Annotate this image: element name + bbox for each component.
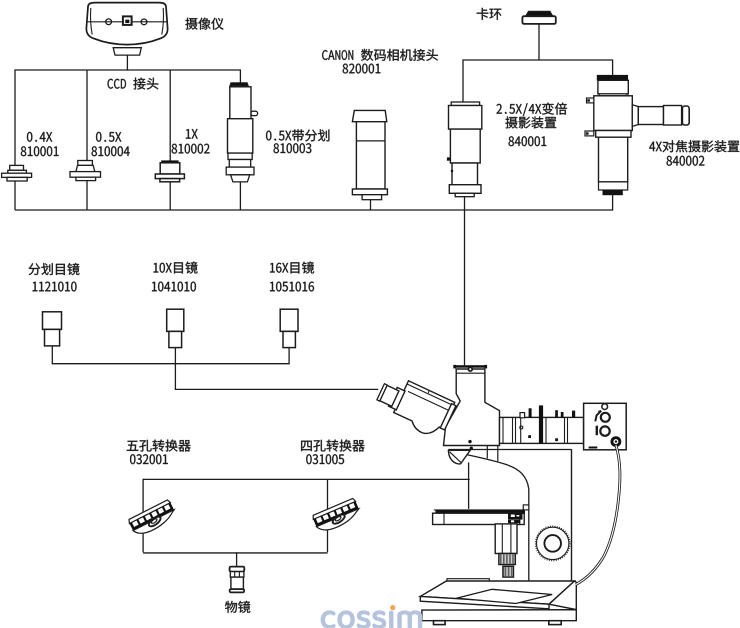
label 0.4X [27, 132, 52, 142]
microscope vertical illuminator [500, 417, 584, 443]
adapter 0.5X-with-reticle 810003 [230, 83, 248, 86]
wire 1X top [169, 70, 171, 162]
wire eyepiece1 drop [51, 346, 53, 364]
wire turret box bottom [143, 552, 327, 554]
objective lens [230, 567, 245, 572]
microscope stage [434, 509, 523, 511]
photo device 2.5X/4X zoom 840001 [451, 102, 479, 106]
wire eyepiece2 to head [175, 348, 378, 390]
wire ring drop [538, 24, 540, 60]
camera mount [113, 48, 141, 55]
label 1X [186, 129, 198, 139]
label 820001 [343, 64, 381, 74]
label 16X eyepiece [270, 262, 314, 274]
adapter CANON digital camera 820001 [352, 110, 386, 121]
wire turret box top [143, 478, 470, 480]
eyepiece 10X 1041010 [167, 309, 184, 331]
microscope condenser column [495, 524, 517, 554]
wire objective drop [236, 552, 238, 567]
label 1041010 [152, 282, 196, 292]
microscope head screws [468, 440, 471, 443]
label camera [185, 18, 223, 30]
adapter 0.5X 810004 [78, 161, 93, 166]
wire nosepiece link [468, 462, 470, 509]
label 0.5X [96, 132, 121, 142]
nosepiece 5-hole turret 032001 [128, 499, 178, 538]
adapter 0.4X 810001 [10, 165, 24, 170]
photo device 4X focusing 840002 [597, 75, 628, 81]
microscope head body [444, 369, 500, 446]
lamp power cable [576, 445, 620, 585]
label reticle eyepiece [28, 263, 79, 275]
label 4-hole turret [301, 440, 364, 452]
microscope phototube flange [454, 365, 487, 368]
wire 840002 bottom [612, 195, 614, 211]
wire 1X bottom [169, 182, 171, 211]
wire camera drop [126, 55, 128, 71]
label 032001 [130, 454, 168, 464]
label 1051016 [270, 282, 314, 292]
retaining ring (card ring) [526, 11, 553, 16]
wire turret box right [327, 479, 329, 552]
microscope binocular eyepiece tubes [372, 372, 457, 441]
wire bus1 (CCD adapters top bus) [15, 69, 241, 71]
label zoom device2 [505, 116, 556, 128]
label 810001 [21, 146, 59, 156]
microscope nosepiece cone [448, 450, 470, 464]
label CANON adapter [322, 49, 438, 61]
label 840002 [667, 156, 705, 166]
adapter 1X 810002 [161, 160, 178, 163]
label 4X focusing [649, 140, 739, 152]
microscope focus knob [537, 527, 569, 559]
wire bus3 (eyepiece bus) [52, 363, 289, 365]
label CCD adapter [108, 78, 159, 90]
wire photo sub-bus [463, 60, 613, 102]
microscope lamp house [584, 403, 627, 450]
wire 0.5X top [86, 70, 88, 161]
microscope base [447, 579, 489, 581]
label 840001 [509, 136, 547, 146]
label 031005 [306, 454, 344, 464]
label 2.5X/4X zoom [496, 103, 566, 116]
eyepiece 16X 1051016 [280, 309, 298, 331]
camera (video camera) body [86, 3, 167, 45]
eyepiece reticle 1121010 [43, 312, 62, 330]
microscope arm [448, 451, 529, 581]
label 5-hole turret [127, 440, 191, 452]
label 0.5X reticle [266, 129, 329, 141]
wire 0.5X-reticle bottom [239, 182, 241, 211]
wire 840001 bottom [464, 197, 466, 211]
wire turret box left [142, 479, 144, 553]
wire bus2 (bottom bus) [15, 209, 613, 211]
label 810004 [92, 146, 130, 156]
label ring [477, 8, 502, 20]
label 10X eyepiece [154, 262, 198, 274]
wire 0.5X-reticle top [239, 70, 241, 83]
wire 0.4X bottom [14, 181, 16, 210]
wire 0.5X bottom [86, 180, 88, 210]
wire CANON adapter bottom [370, 200, 372, 211]
label 1121010 [33, 282, 77, 292]
wire trinocular drop [464, 210, 466, 365]
wire 0.4X top [14, 69, 16, 166]
nosepiece 4-hole turret 031005 [312, 498, 362, 535]
watermark cossim [321, 611, 421, 628]
label 810003 [274, 143, 312, 153]
label 810002 [172, 144, 210, 154]
label objective [225, 601, 250, 613]
wire eyepiece3 drop [288, 348, 290, 365]
microscope knurled focusing rings [499, 554, 515, 565]
microscope head-arm dovetail [486, 446, 488, 459]
